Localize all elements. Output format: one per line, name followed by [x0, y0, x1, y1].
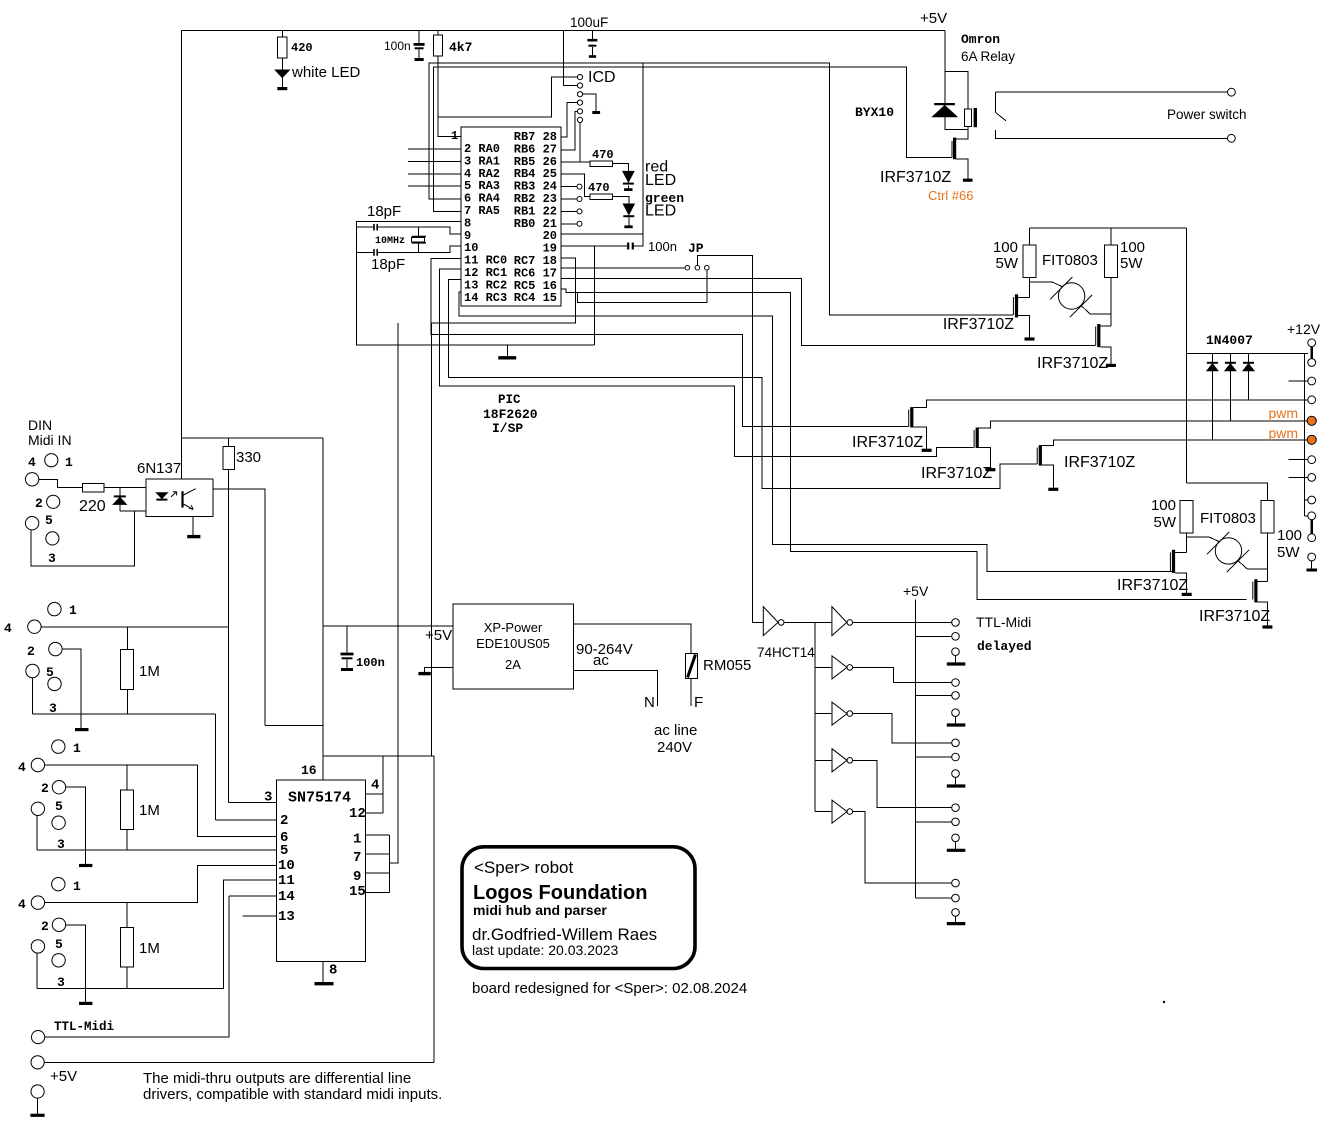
- wire RA5 line (pin7) to relay mosfet gate: [433, 67, 951, 211]
- svg-text:+5V: +5V: [903, 583, 929, 599]
- svg-text:TTL-Midi: TTL-Midi: [976, 614, 1031, 630]
- svg-text:delayed: delayed: [977, 639, 1032, 654]
- ground midi out2 shield: [79, 1002, 92, 1005]
- wire +5V output pin line: [45, 1061, 435, 1063]
- wire bridge2 right node diagonal: [1238, 560, 1268, 569]
- wire bridge1 LR mosfet drain: [1100, 325, 1111, 327]
- svg-text:Midi IN: Midi IN: [28, 432, 72, 448]
- svg-text:RM055: RM055: [703, 657, 751, 674]
- ground PS output: [418, 672, 430, 675]
- svg-text:1: 1: [73, 879, 81, 894]
- wire inv5 input stub: [815, 759, 832, 761]
- svg-text:1M: 1M: [139, 940, 160, 957]
- ground bridge2 LR: [1262, 625, 1272, 628]
- svg-text:2: 2: [27, 644, 35, 659]
- wire PS +5V gnd pin: [424, 667, 453, 672]
- svg-text:pwm: pwm: [1268, 405, 1298, 421]
- ground pwm C: [1048, 488, 1058, 491]
- wire PS mains bottom N lead: [573, 670, 657, 706]
- opto phototransistor: [181, 491, 183, 507]
- svg-text:2A: 2A: [505, 657, 521, 672]
- svg-text:1M: 1M: [139, 802, 160, 819]
- transistor pwm C IRF3710Z: [1039, 445, 1042, 466]
- wire pin21 RB0 stub: [561, 223, 577, 225]
- transistor pwm A IRF3710Z: [910, 407, 913, 427]
- wire power switch upper contact: [995, 92, 1227, 112]
- inverter gate5: [832, 749, 847, 772]
- wire right connector stub row10: [1304, 515, 1307, 517]
- svg-text:9: 9: [353, 869, 361, 885]
- wire DIN midi-in pin4 to 220: [39, 479, 83, 487]
- svg-text:midi hub and parser: midi hub and parser: [473, 902, 607, 918]
- wire opto LED internal: [161, 488, 163, 511]
- svg-text:4: 4: [28, 455, 36, 470]
- resistor 470 green: [590, 194, 613, 200]
- wire pin4 RA2 stub: [408, 173, 461, 175]
- wire pwm mosfet B drain line to pwm pin: [979, 421, 1308, 428]
- relay Omron coil: [964, 109, 971, 127]
- ground bridge2 UL: [1182, 593, 1192, 596]
- connector pwm pin 2: [1307, 435, 1316, 444]
- wire BYX10 diode branch: [945, 71, 968, 129]
- wire 100uF vertical: [591, 31, 593, 57]
- ground ICD: [592, 111, 600, 114]
- wire SN pin14 to TTL midi input: [45, 896, 277, 1037]
- svg-text:+5V: +5V: [50, 1068, 77, 1085]
- transistor bridge1 LR IRF3710Z: [1097, 324, 1100, 347]
- wire +5V stub row1: [915, 635, 951, 637]
- svg-text:6N137: 6N137: [137, 460, 181, 477]
- wire data line horizontal: [323, 755, 434, 757]
- svg-text:TTL-Midi: TTL-Midi: [54, 1020, 114, 1034]
- wire inv6 output jog: [853, 812, 952, 884]
- label box rounded Sper robot: [462, 847, 695, 969]
- wire pin25 RB4 to 470 green: [561, 174, 590, 197]
- wire bridge1 UL mosfet source to ground: [1018, 316, 1030, 338]
- wire pin10-11 link: [1310, 520, 1313, 534]
- wire inv4 input stub: [815, 713, 832, 715]
- wire bridge2 top rail: [1187, 483, 1268, 501]
- svg-text:3: 3: [57, 837, 65, 852]
- crystal 10MHz: [412, 237, 426, 243]
- svg-text:DIN: DIN: [28, 417, 52, 433]
- motor FIT0803 bridge2: [1215, 538, 1241, 564]
- wire 1N4007 diode 2: [1229, 353, 1231, 421]
- ground pwm A: [922, 449, 932, 452]
- wire midi out2 pin2 shield ground: [66, 925, 86, 1002]
- svg-text:1: 1: [73, 741, 81, 756]
- wire RA4 line (pin6) to bridge1 upper-left gate: [429, 63, 1013, 315]
- svg-text:1N4007: 1N4007: [1206, 333, 1253, 348]
- wire opto line to riser column: [265, 724, 323, 726]
- wire ICD vdd from +5V rail: [563, 31, 577, 86]
- svg-text:Ctrl #66: Ctrl #66: [928, 188, 974, 203]
- wire pwm mosfet C drain line to pwm pin: [1042, 440, 1308, 446]
- wire green LED branch: [613, 197, 629, 226]
- wire +12V rail: [1187, 352, 1308, 354]
- inverter gate4: [832, 702, 847, 725]
- wire +5V branch to 330 and PS riser: [182, 438, 323, 447]
- connector DIN midi-in: [45, 454, 58, 467]
- connector pin 8: [1308, 474, 1316, 482]
- wire pin20 vdd to +5V rail: [561, 63, 643, 234]
- svg-text:4: 4: [371, 778, 379, 794]
- svg-text:4: 4: [4, 621, 12, 636]
- wire PS mains top to RM055: [573, 624, 691, 653]
- svg-text:1: 1: [65, 455, 73, 470]
- wire midi out1 pin4 line joins data net: [41, 626, 229, 628]
- opto 6N137 body U2: [146, 479, 213, 517]
- wire bridge1 left node to motor diagonal: [1030, 282, 1063, 287]
- transistor relay driver IRF3710Z Q1: [953, 138, 956, 160]
- svg-text:2: 2: [41, 781, 49, 796]
- wire right connector tick row8: [1289, 476, 1308, 478]
- power switch terminal bottom: [1228, 134, 1236, 142]
- transistor bridge2 LR IRF3710Z: [1254, 579, 1257, 602]
- svg-text:ac line: ac line: [654, 722, 697, 739]
- svg-text:12: 12: [349, 806, 366, 822]
- svg-text:board redesigned for <Sper>: 0: board redesigned for <Sper>: 02.08.2024: [472, 980, 747, 997]
- ground delayed g3: [947, 784, 966, 787]
- svg-text:240V: 240V: [657, 739, 692, 756]
- wire SN pin8 ground: [322, 961, 324, 982]
- wire +5V pull column: [914, 600, 916, 899]
- motor FIT0803 bridge1: [1058, 283, 1084, 309]
- wire bridge2 UL mosfet drain: [1175, 551, 1187, 553]
- wire relay +5V drop: [945, 31, 968, 109]
- svg-text:Power switch: Power switch: [1167, 107, 1247, 122]
- svg-text:100: 100: [1277, 527, 1302, 544]
- wire pin12 RC1 to mosfet B gate line: [439, 269, 973, 457]
- ground DIN shield: [75, 728, 89, 731]
- wire bridge1 right resistor drops: [1110, 228, 1112, 326]
- svg-text:74HCT14: 74HCT14: [757, 645, 815, 660]
- wire bridge1 right node diagonal: [1081, 305, 1111, 314]
- connector pin 11: [1308, 534, 1316, 542]
- svg-text:EDE10US05: EDE10US05: [476, 636, 550, 651]
- svg-text:I/SP: I/SP: [492, 421, 523, 436]
- svg-text:330: 330: [236, 449, 261, 466]
- wire 330 bottom stem and SN pin3 riser: [228, 470, 230, 803]
- svg-text:1: 1: [451, 129, 458, 143]
- wire crystal bottom rail with pin10 jog: [357, 246, 462, 252]
- wire crystal stem: [418, 227, 420, 252]
- svg-text:11: 11: [278, 873, 295, 889]
- opto light arrow: [171, 492, 177, 497]
- svg-text:PIC: PIC: [498, 393, 521, 407]
- wire pin14 RC3 to bridge2 upper-left gate: [459, 292, 1172, 571]
- ground PIC vss symbol: [498, 356, 516, 359]
- wire pwm mosfet A source ground: [913, 427, 926, 449]
- wire data line branch to SN75174 inputs riser: [390, 323, 398, 863]
- svg-text:N: N: [644, 694, 655, 711]
- svg-text:pwm: pwm: [1268, 425, 1298, 441]
- inverter gate6: [832, 800, 847, 823]
- svg-text:IRF3710Z: IRF3710Z: [1199, 608, 1270, 625]
- wire midi out1 pin4 to SN pin6: [45, 765, 277, 837]
- svg-text:100uF: 100uF: [570, 15, 608, 30]
- wire 220 to 6N137 anode: [104, 487, 162, 489]
- wire ICD gnd stub: [583, 94, 597, 111]
- wire pin19 vss vertical to ground line: [594, 246, 596, 345]
- resistor 330: [223, 447, 235, 470]
- resistor 100 5W bridge1 left: [1023, 245, 1036, 278]
- jumper JP pins: [685, 265, 690, 270]
- wire right connector stub row9: [1304, 499, 1307, 501]
- PIC 18F2620 chip body U1: [461, 127, 561, 306]
- transistor bridge1 UL IRF3710Z: [1015, 294, 1018, 317]
- svg-text:last update: 20.03.2023: last update: 20.03.2023: [472, 942, 619, 958]
- svg-text:IRF3710Z: IRF3710Z: [1037, 355, 1108, 372]
- svg-text:100n: 100n: [384, 39, 411, 53]
- wire 1M resistor out1 taps: [126, 627, 128, 714]
- wire +12V pin link: [1310, 347, 1313, 359]
- svg-text:100: 100: [1120, 239, 1145, 256]
- power switch terminal top: [1228, 88, 1236, 96]
- wire +5V bottom corner to last pin: [915, 897, 951, 899]
- connector right edge +12V pin: [1308, 339, 1316, 347]
- wire 1N4007 diode 3: [1248, 353, 1250, 400]
- wire right connector bus: [1303, 353, 1305, 516]
- wire pin16 RC5 to bridge1 lower-right gate: [561, 278, 1096, 345]
- svg-text:Logos Foundation: Logos Foundation: [473, 882, 647, 904]
- svg-text:5: 5: [55, 937, 63, 952]
- connector gnd input: [31, 1085, 44, 1098]
- svg-text:drivers, compatible with stand: drivers, compatible with standard midi i…: [143, 1086, 442, 1103]
- wire pwm mosfet A drain line to connector: [913, 400, 1308, 408]
- ground midi out1 shield: [79, 864, 92, 867]
- wire midi out1 pin5 line to SN pin5: [37, 816, 277, 850]
- wire bridge2 left node diagonal: [1187, 537, 1220, 542]
- test point RB3: [577, 184, 582, 189]
- svg-text:5W: 5W: [1120, 255, 1143, 272]
- connector DIN midi-out2: [52, 878, 65, 891]
- green LED: [623, 204, 634, 215]
- wire 6N137 vcc pin: [182, 479, 183, 481]
- diode 1N4007 a: [1207, 362, 1218, 364]
- wire +5V stub row3: [915, 756, 951, 758]
- diode 1N4007 b: [1225, 362, 1236, 364]
- transistor bridge2 UL IRF3710Z: [1172, 550, 1175, 573]
- wire RX riser to data line: [431, 323, 433, 756]
- resistor 100 5W bridge2 left: [1180, 501, 1193, 534]
- svg-text:3: 3: [48, 551, 56, 566]
- connector TTL-Midi input: [31, 1031, 44, 1044]
- capacitor 100n pin19: [628, 243, 633, 250]
- wire bottom right pin ground: [1311, 561, 1313, 569]
- svg-text:LED: LED: [645, 172, 676, 189]
- diode input protection: [114, 495, 126, 497]
- wire bridge1 LR mosfet source to ground: [1100, 347, 1111, 364]
- svg-text:<Sper> robot: <Sper> robot: [474, 858, 574, 877]
- svg-text:5W: 5W: [1277, 544, 1300, 561]
- svg-text:5W: 5W: [1154, 514, 1177, 531]
- wire bridge2 LR mosfet drain: [1257, 580, 1267, 582]
- stray dot: [1163, 1001, 1165, 1003]
- svg-text:SN75174: SN75174: [288, 790, 351, 807]
- svg-text:white LED: white LED: [291, 64, 361, 81]
- resistor 100 5W bridge1 right: [1104, 245, 1117, 278]
- wire pin24 RB3 stub to test point: [561, 186, 577, 188]
- svg-text:100: 100: [1151, 497, 1176, 514]
- driver SN75174 box U3: [277, 780, 366, 962]
- wire pin17 RC6 to JP left pin: [561, 267, 685, 269]
- inverter gate3: [832, 656, 847, 679]
- wire pin5 RA3 stub: [408, 185, 461, 187]
- wire midi out2 pin5 line to SN pin11: [37, 880, 277, 989]
- inverter gate2: [832, 607, 847, 636]
- svg-text:470: 470: [588, 181, 610, 195]
- svg-text:3: 3: [49, 701, 57, 716]
- svg-text:1M: 1M: [139, 663, 160, 680]
- wire SN pin2 lead: [215, 819, 276, 821]
- wire inv3 output jog: [853, 667, 952, 682]
- svg-text:FIT0803: FIT0803: [1200, 510, 1256, 527]
- svg-text:3: 3: [57, 975, 65, 990]
- connector DIN midi-out2: [52, 740, 65, 753]
- wire inverter input bus: [814, 622, 816, 811]
- connector pin 7: [1308, 456, 1316, 464]
- wire inv4 output jog: [853, 714, 952, 743]
- svg-text:15: 15: [349, 884, 366, 900]
- svg-text:FIT0803: FIT0803: [1042, 252, 1098, 269]
- wire pin28 to ICD pgd: [561, 103, 577, 138]
- wire +5V top rail from frame corner to relay: [182, 30, 946, 32]
- svg-text:2: 2: [41, 919, 49, 934]
- wire inv3 input stub: [815, 666, 832, 668]
- wire +5V stub row2: [915, 694, 951, 696]
- svg-text:470: 470: [592, 148, 614, 162]
- svg-text:5: 5: [46, 665, 54, 680]
- test point RB2: [577, 197, 582, 202]
- wire pin2 RA0 stub: [408, 148, 461, 150]
- svg-text:RC4 15: RC4 15: [514, 291, 557, 305]
- svg-text:JP: JP: [688, 241, 704, 256]
- resistor 1M out2: [121, 928, 134, 968]
- resistor 100 5W bridge2 right: [1261, 501, 1274, 534]
- svg-text:F: F: [694, 694, 703, 711]
- svg-text:7: 7: [353, 850, 361, 866]
- connector pin 10: [1308, 512, 1316, 520]
- svg-text:IRF3710Z: IRF3710Z: [943, 316, 1014, 333]
- resistor 420: [281, 31, 283, 38]
- wire pin22 RB1 stub: [561, 210, 577, 212]
- wire bridge1 left resistor drops: [1029, 228, 1031, 297]
- ground SN pin8: [315, 982, 334, 985]
- connector pin 12: [1308, 553, 1316, 561]
- wire SN enable pins 4 12 feed: [382, 756, 384, 794]
- wire inv6 input stub: [815, 811, 832, 813]
- capacitor 100n at PS: [341, 653, 354, 656]
- wire midi out2 pin4 to SN pin10: [45, 866, 277, 903]
- svg-text:3: 3: [264, 790, 272, 806]
- ground bottom left pin: [30, 1114, 44, 1117]
- svg-text:+5V: +5V: [920, 10, 947, 27]
- svg-text:ICD: ICD: [588, 69, 616, 86]
- wire pin15 RC4 jog to bridge2 lower-right gate: [561, 289, 1246, 600]
- svg-text:IRF3710Z: IRF3710Z: [880, 169, 951, 186]
- wire SN pins 4 12 loop: [366, 794, 383, 813]
- wire input protection diode verticals: [119, 488, 121, 511]
- svg-text:220: 220: [79, 498, 106, 515]
- wire 1M resistor 1 taps: [126, 765, 128, 850]
- ground bottom right pin: [1307, 569, 1318, 572]
- wire 100n top cap vertical: [418, 31, 420, 59]
- resistor 1M out1: [121, 790, 134, 830]
- connector pin 4: [1308, 396, 1316, 404]
- svg-text:IRF3710Z: IRF3710Z: [1117, 577, 1188, 594]
- svg-text:IRF3710Z: IRF3710Z: [852, 434, 923, 451]
- ground delayed g1: [947, 662, 966, 665]
- wire ICD vpp line to pin1 net: [438, 77, 577, 117]
- resistor 220: [83, 484, 104, 492]
- svg-text:10MHz: 10MHz: [375, 236, 405, 247]
- svg-text:IRF3710Z: IRF3710Z: [921, 465, 992, 482]
- wire delayed gnd stems: [955, 656, 957, 923]
- wire pin13 RC2 to pwm mosfet C gate: [449, 280, 1037, 489]
- svg-text:1: 1: [353, 831, 361, 847]
- capacitor 18pF top: [374, 224, 377, 231]
- wire JP middle pin to 74HCT14 inverter1 input: [697, 255, 763, 622]
- wire bridge2 left resistor bottom: [1186, 533, 1188, 553]
- wire power switch blade: [995, 112, 1006, 121]
- ground delayed g2: [947, 723, 966, 726]
- wire bridge2 LR mosfet source ground: [1257, 602, 1267, 626]
- wire pin26 RB5 to 470 and ICD aux: [561, 123, 590, 162]
- wire SN pin3 lead: [229, 802, 277, 804]
- svg-text:18pF: 18pF: [371, 256, 405, 273]
- wire RM055 bottom F lead: [690, 679, 692, 706]
- wire pin23 RB2 stub: [561, 198, 577, 200]
- wire pin19 to 100n cap: [561, 234, 643, 246]
- resistor 4k7: [434, 35, 443, 56]
- wire relay mosfet source to ground: [956, 159, 968, 179]
- wire +5V bottom gnd pin stem: [37, 1098, 39, 1114]
- svg-text:16: 16: [301, 763, 317, 778]
- red LED: [623, 171, 634, 182]
- svg-text:4: 4: [18, 897, 26, 912]
- test point RB1: [577, 209, 582, 214]
- ground bridge1 UL: [1025, 337, 1035, 340]
- wire right side main vertical: [1186, 228, 1188, 483]
- ICD connector pins: [577, 75, 582, 80]
- svg-text:5W: 5W: [996, 255, 1019, 272]
- wire return to DIN pin5: [31, 511, 135, 566]
- svg-text:10: 10: [278, 858, 295, 874]
- connector DIN midi-out1 top: [48, 602, 61, 615]
- svg-text:Omron: Omron: [961, 32, 1000, 47]
- svg-text:13: 13: [278, 909, 295, 925]
- svg-text:+12V: +12V: [1287, 321, 1321, 337]
- svg-text:1: 1: [69, 603, 77, 618]
- wire opto LED cathode return line: [120, 510, 162, 512]
- wire 1M resistor 2 taps: [126, 903, 128, 989]
- svg-text:IRF3710Z: IRF3710Z: [1064, 454, 1135, 471]
- wire midi out1 pin2 shield ground: [66, 787, 86, 864]
- svg-text:+5V: +5V: [425, 627, 452, 644]
- wire +5V riser to bottom connector: [433, 756, 435, 1063]
- svg-text:100n: 100n: [648, 239, 677, 254]
- connector pwm pin 1: [1307, 416, 1316, 425]
- wire pin18 RC7 RX jog left: [432, 258, 576, 323]
- svg-text:5: 5: [280, 843, 288, 859]
- wire pin8 vss to crystal rail and ground line: [357, 221, 595, 345]
- wire bridge1 UL mosfet drain: [1018, 296, 1030, 298]
- svg-text:5: 5: [45, 513, 53, 528]
- connector +5V input: [31, 1056, 44, 1069]
- connector pin 9: [1308, 496, 1316, 504]
- varistor RM055: [686, 654, 698, 679]
